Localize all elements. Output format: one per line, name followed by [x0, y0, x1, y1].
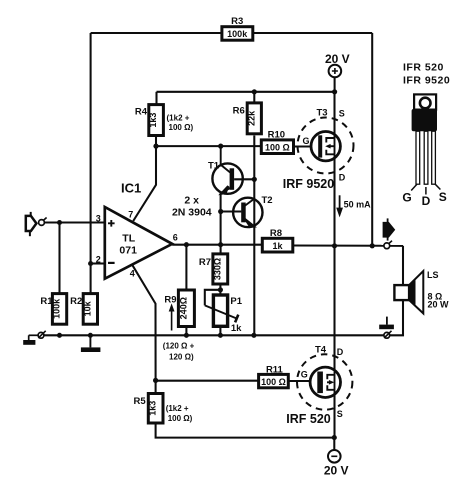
svg-text:IC1: IC1 [121, 181, 141, 196]
svg-text:S: S [339, 109, 345, 119]
wire R11 to T4 gate [288, 380, 317, 382]
svg-text:R7: R7 [199, 257, 211, 268]
svg-text:120 Ω): 120 Ω) [169, 352, 194, 361]
wire node line R4 to R10 [156, 145, 261, 147]
svg-text:G: G [303, 136, 310, 146]
svg-text:T4: T4 [315, 345, 327, 356]
svg-text:IFR 520: IFR 520 [403, 62, 444, 74]
MOSFET T4 IRF520 [286, 345, 352, 426]
wire R8 to output node and connector [293, 244, 403, 246]
svg-text:R9: R9 [164, 294, 176, 305]
svg-text:330Ω: 330Ω [212, 258, 222, 280]
resistor R5 1k3 [134, 394, 193, 424]
svg-text:10k: 10k [82, 300, 92, 316]
resistor R11 100 ohm [259, 364, 289, 387]
resistor R10 100 ohm [261, 130, 293, 154]
svg-text:D: D [422, 194, 431, 208]
svg-text:(120 Ω +: (120 Ω + [163, 341, 195, 350]
wire pin 7 supply path [133, 146, 156, 221]
wire R4 top stub [155, 92, 157, 105]
svg-text:T3: T3 [316, 107, 327, 118]
svg-text:1k: 1k [231, 323, 242, 334]
svg-text:R2: R2 [70, 296, 82, 307]
svg-text:100k: 100k [227, 29, 248, 39]
note arrow (120+120) to R9 [163, 303, 195, 361]
wire R4 bottom stub [155, 136, 157, 147]
svg-text:240Ω: 240Ω [178, 297, 188, 319]
wire pin 4 supply path [133, 265, 156, 380]
svg-text:4: 4 [130, 268, 135, 278]
svg-text:R4: R4 [135, 106, 148, 117]
svg-text:1k3: 1k3 [148, 113, 158, 128]
svg-text:20 V: 20 V [325, 52, 350, 66]
wire bottom rail R5 to -20V [156, 423, 335, 438]
wire T1 emitter / T2 base / R7 vertical [220, 192, 222, 254]
wire R6 / T1 collector / T2 vertical [253, 136, 255, 336]
wire P1 bottom stub [219, 326, 221, 335]
wire R1 top drop [58, 223, 60, 294]
svg-text:1k: 1k [272, 241, 283, 251]
svg-text:100 Ω): 100 Ω) [168, 414, 193, 423]
svg-text:R6: R6 [233, 106, 245, 117]
resistor R2 10k [70, 294, 97, 325]
resistor R7 330 ohm [199, 254, 228, 284]
output ground connector [384, 331, 392, 338]
svg-text:IRF 520: IRF 520 [286, 412, 331, 426]
resistor R3 100k [222, 16, 253, 40]
svg-text:S: S [337, 409, 343, 419]
wire ground rail [44, 334, 384, 336]
svg-text:R5: R5 [134, 396, 147, 407]
svg-text:22k: 22k [246, 110, 256, 126]
svg-text:1k3: 1k3 [148, 401, 158, 416]
svg-text:100 Ω: 100 Ω [261, 377, 286, 387]
wire speaker bottom return [390, 300, 403, 335]
wire main vertical rail T3/T4 [333, 92, 335, 438]
resistor R9 240 ohm [164, 290, 194, 327]
svg-text:(1k2 +: (1k2 + [166, 404, 189, 413]
svg-text:100 Ω: 100 Ω [265, 142, 290, 152]
label 2x 2N3904 [172, 194, 212, 218]
wire R5 top stub [155, 380, 157, 393]
svg-text:G: G [402, 191, 411, 205]
svg-text:S: S [439, 190, 447, 204]
svg-text:T1: T1 [208, 160, 220, 171]
svg-text:G: G [301, 369, 308, 379]
svg-text:100k: 100k [52, 298, 62, 319]
svg-text:3: 3 [96, 213, 101, 223]
input connector plug [26, 212, 47, 236]
wire supply rail +20V [157, 91, 335, 93]
svg-text:7: 7 [128, 209, 133, 219]
potentiometer P1 1k [205, 295, 243, 334]
wire R7 bottom to P1 top [219, 284, 221, 295]
svg-text:T2: T2 [261, 195, 272, 206]
MOSFET T3 IRF9520 [283, 107, 354, 191]
svg-text:LS: LS [427, 270, 439, 280]
svg-text:2 x: 2 x [184, 194, 199, 206]
svg-text:50 mA: 50 mA [344, 200, 372, 210]
TO-220 package drawing IFR520/IFR9520 [402, 62, 450, 208]
ground (input) [23, 335, 35, 345]
wire op-amp output line to R8 [172, 244, 262, 246]
wire speaker top drop [402, 246, 404, 285]
svg-text:R3: R3 [231, 16, 243, 27]
svg-text:P1: P1 [230, 296, 242, 307]
wire +20V stem [334, 77, 336, 91]
resistor R4 1k3 [135, 105, 194, 136]
wire feedback right vertical (down to output node) [371, 33, 373, 246]
wire R5 node to R11 [156, 380, 259, 382]
speaker LS [394, 270, 449, 314]
output connector plug [383, 218, 395, 248]
resistor R8 1k [262, 228, 293, 252]
transistor T1 2N3904 [208, 146, 243, 194]
svg-text:20 V: 20 V [324, 463, 349, 477]
wire T1 collector stub [234, 178, 254, 180]
transistor T2 2N3904 [233, 195, 272, 227]
wire pin 2 stub [91, 262, 105, 264]
svg-text:R11: R11 [266, 364, 284, 375]
svg-text:071: 071 [119, 244, 137, 256]
svg-text:IRF 9520: IRF 9520 [283, 177, 334, 191]
svg-text:R8: R8 [270, 228, 282, 239]
current arrow 50 mA [336, 195, 371, 217]
svg-text:2N 3904: 2N 3904 [172, 206, 212, 218]
wire feedback top left (to R3) [91, 32, 222, 34]
svg-text:(1k2 +: (1k2 + [167, 114, 190, 123]
wire R10 to T3 gate [294, 145, 319, 147]
supply -20V [324, 450, 349, 477]
wire R6 top stub [253, 92, 255, 103]
wire -20V stem [333, 438, 335, 451]
svg-text:20 W: 20 W [428, 300, 450, 310]
wire feedback left vertical (R3 to pin2/R2) [90, 33, 92, 294]
svg-text:R10: R10 [268, 130, 285, 141]
wire T2 base stub [221, 210, 242, 212]
resistor R1 100k [40, 294, 66, 325]
resistor R6 22k [233, 103, 262, 134]
svg-text:D: D [337, 347, 344, 357]
svg-text:100 Ω): 100 Ω) [169, 123, 194, 132]
wire R9 bottom stub [185, 327, 187, 336]
svg-text:2: 2 [96, 255, 101, 265]
wire input line to pin 3 [45, 221, 105, 223]
op-amp IC1 TL071 [96, 181, 178, 279]
ground (output) [379, 317, 394, 330]
svg-text:TL: TL [122, 232, 135, 244]
wire R9 top stub [185, 245, 187, 290]
wire P1 wiper loop [205, 290, 221, 306]
svg-text:D: D [339, 173, 346, 183]
wire feedback top right (R3 to right drop) [253, 32, 372, 34]
supply +20V [325, 52, 350, 77]
svg-text:6: 6 [173, 233, 178, 243]
ground (under R2) [81, 335, 101, 352]
input ground connector [29, 331, 46, 338]
svg-text:IFR 9520: IFR 9520 [403, 75, 450, 87]
